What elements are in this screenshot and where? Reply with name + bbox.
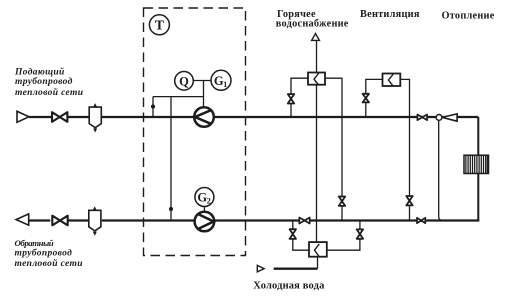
sensor G1 (211, 70, 231, 90)
sensor T (149, 15, 169, 35)
DHW air vent arrow (312, 34, 320, 41)
svg-text:1: 1 (223, 80, 227, 89)
wire supply sensor stub (152, 97, 154, 117)
wire return to HX3 left (293, 221, 309, 251)
supply pipe (29, 116, 478, 118)
strainer F2 (return) (89, 207, 101, 235)
supply inlet arrow (17, 111, 29, 122)
svg-text:Подающий: Подающий (14, 66, 65, 77)
valve V10 (HX3 left) (290, 229, 296, 239)
label: supply pipeline (14, 66, 83, 98)
strainer F1 (supply) (89, 104, 101, 132)
svg-text:T: T (155, 19, 165, 34)
junction dot supply sensor (151, 104, 155, 108)
svg-text:тепловой сети: тепловой сети (15, 87, 83, 98)
svg-text:трубопровод: трубопровод (15, 248, 73, 259)
junction dot return sensor (169, 207, 173, 211)
valve V9 (return pipe right) (417, 218, 425, 223)
wire HX1 left to supply (291, 78, 308, 117)
return pipe (29, 219, 479, 221)
label: hot water supply (276, 9, 349, 30)
valve V4 (HX1 return) (339, 197, 345, 206)
svg-text:Q: Q (179, 74, 189, 88)
heating riser wire (477, 117, 479, 221)
svg-text:Отопление: Отопление (442, 10, 495, 21)
wire G2 to pump P2 (203, 207, 205, 213)
valve V3 (HX1 supply) (288, 94, 294, 103)
svg-text:тепловой сети: тепловой сети (15, 258, 83, 269)
wire HX1 right down to return (325, 78, 342, 220)
pump P2 (return) (195, 212, 215, 232)
valve V5 (HX2 supply) (363, 94, 369, 103)
wire HX2 left to supply (366, 79, 383, 117)
heat exchanger HX3 (DHW stage 2) (309, 242, 327, 257)
svg-text:трубопровод: трубопровод (15, 76, 73, 87)
heat meter boundary (dashed) (144, 8, 246, 256)
wire HX3 bottom (317, 257, 319, 269)
return outlet arrow (16, 214, 29, 225)
elevator cone (442, 114, 457, 121)
wire Q to G1 (193, 80, 211, 82)
elevator nozzle circle (436, 115, 442, 121)
radiator (464, 155, 489, 173)
cold water pipe (274, 268, 318, 270)
DHW riser wire (316, 40, 318, 72)
wire return to HX3 right (327, 221, 360, 251)
wire elevator suction (439, 120, 443, 220)
sensor G2 (195, 188, 214, 207)
svg-text:Вентиляция: Вентиляция (360, 9, 420, 20)
valve V7 (heating supply) (417, 115, 427, 121)
heat exchanger HX2 (ventilation) (383, 74, 401, 87)
valve V8 (return pipe mid) (299, 218, 309, 224)
sensor Q (175, 72, 194, 91)
wire G1/Q junction down to pump P1 (203, 81, 205, 108)
wire return sensor line (170, 97, 172, 221)
valve V1 (supply inlet) (52, 112, 67, 122)
wire sensor header (153, 96, 204, 98)
wire HX2 right down to return (400, 79, 409, 220)
pump P1 (supply) (194, 107, 214, 127)
heat exchanger HX1 (DHW stage 1) (308, 73, 325, 85)
valve V2 (return outlet) (52, 216, 67, 226)
svg-text:Обратный: Обратный (15, 238, 54, 248)
valve V6 (HX2 return) (406, 196, 412, 205)
label: return pipeline (15, 238, 83, 269)
svg-text:Холодная вода: Холодная вода (253, 281, 325, 292)
cold water inlet arrow (257, 265, 264, 272)
svg-text:водоснабжение: водоснабжение (276, 19, 349, 30)
svg-text:2: 2 (207, 197, 211, 206)
valve V11 (HX3 right) (357, 229, 363, 238)
